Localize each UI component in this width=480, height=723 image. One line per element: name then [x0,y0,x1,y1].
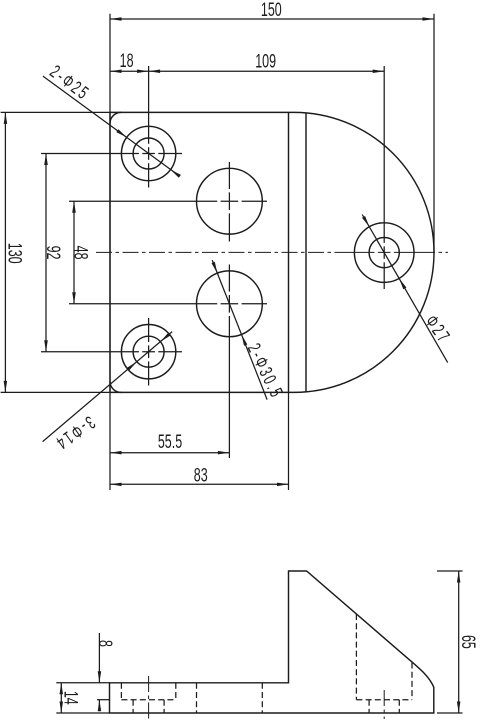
plate outline (top view, D-shaped) [110,112,434,392]
H3 vertical centerline [228,162,230,242]
hidden lines holes H3/H4 (Phi30.5) [197,683,263,713]
leader Phi27 (hole H5 counterbore) [362,215,454,363]
H5 vertical centerline / 109 extension [383,66,385,289]
H3 horizontal centerline / 48 extension [69,200,267,202]
leader 3-Phi14 (through bores) [43,332,173,454]
svg-text:109: 109 [255,51,276,72]
dimension 92 [42,154,63,352]
dimension 109 [149,51,385,73]
H2 horizontal centerline / 92 extension [41,351,182,353]
svg-text:2-Φ25: 2-Φ25 [46,62,94,105]
dimension 48 [70,201,91,304]
hole H5 counterbore circle (Phi27) [354,223,414,283]
svg-text:55.5: 55.5 [158,431,182,452]
hole H1 bore circle (Phi14) [133,138,164,169]
side view outline [110,571,434,713]
svg-text:83: 83 [194,465,208,486]
slant top edge projection line [305,113,307,392]
side view centerline hole H5 [383,690,385,719]
side view centerline hole H1 [148,676,150,719]
dimension 65 (overall height) [437,571,479,713]
dimension 150 (overall width) [110,0,434,21]
main horizontal centerline (right part) [419,251,448,253]
svg-text:150: 150 [261,0,282,21]
svg-text:48: 48 [70,246,91,260]
hole H3 circle (Phi30.5) [197,168,263,234]
top-left corner fillet R5 [110,112,122,123]
extension+edge line at x=110 [109,14,111,490]
leader 2-Phi30.5 (holes H3/H4) [212,260,287,402]
step edge at x=83 (boss boundary) [288,112,290,392]
svg-text:18: 18 [120,50,134,71]
svg-text:65: 65 [457,635,478,649]
step edge extension to 83 dim [288,392,290,490]
H4 vertical centerline / 55.5 extension [228,265,230,459]
H1 vertical centerline / 18-109 extension [148,66,150,188]
dimension 83 [110,465,289,486]
hole H2 bore circle (Phi14) [133,336,164,367]
150 right extension line at x=434 [433,14,435,253]
hole H1 counterbore circle (Phi25) [121,126,175,180]
svg-text:92: 92 [42,246,63,260]
hole H4 circle (Phi30.5) [197,271,263,337]
dimension 18 [110,50,149,73]
hidden lines hole H5 (counterbore + bore) [356,614,412,713]
bottom-left corner fillet R5 [110,381,122,392]
dimension 14 (base thickness) [56,683,109,713]
hole H5 bore circle (Phi14) [369,238,399,268]
dimension 130 (overall height) [1,112,110,392]
svg-text:8: 8 [94,640,115,647]
dimension 8 (counterbore depth) [94,633,115,711]
H1 horizontal centerline / 92 extension [41,153,182,155]
hidden lines hole H1/H2 (counterbore + bore) [121,683,175,713]
dimension 55.5 [110,431,229,454]
svg-text:3-Φ14: 3-Φ14 [51,412,99,454]
main horizontal centerline (left part) [96,251,349,253]
svg-text:130: 130 [4,243,25,264]
H4 horizontal centerline / 48 extension [69,303,267,305]
svg-text:14: 14 [60,691,81,705]
main horizontal centerline (through hole H5) [349,251,419,253]
leader 2-Phi25 (holes H1/H2 counterbore) [43,62,181,178]
svg-text:Φ27: Φ27 [421,312,455,348]
H2 vertical centerline [148,318,150,386]
hole H2 counterbore circle (Phi25) [121,325,175,379]
